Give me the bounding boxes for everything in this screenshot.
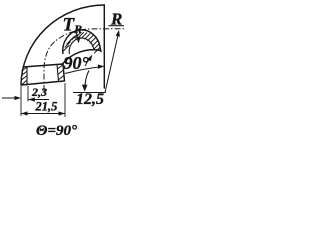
section hump inner offset arc <box>69 38 94 53</box>
dim 21,5 left arrowhead <box>21 111 28 115</box>
extension line right <box>64 83 66 117</box>
section hump hatch <box>64 32 100 53</box>
svg-text:12,5: 12,5 <box>76 91 104 108</box>
angle arc arrowhead up-right <box>87 55 92 62</box>
dim 2,3 right shaft <box>28 99 49 101</box>
bottom plane extension line <box>73 92 106 94</box>
T_R leader <box>76 31 79 39</box>
outer arc <box>21 5 104 85</box>
dim 2,3 left arrowhead <box>15 96 22 100</box>
down arrowhead at bottom plane <box>82 85 88 92</box>
90 degree leader line to right face <box>65 67 101 74</box>
section hump right edge <box>99 48 102 52</box>
dim 21,5 line <box>21 113 65 115</box>
svg-text:2,3: 2,3 <box>31 85 47 99</box>
right face leader arrowhead <box>98 65 105 69</box>
T_R leader arrowhead <box>76 37 80 44</box>
inner arc <box>62 50 101 65</box>
right end face line <box>103 5 105 88</box>
bottom end band bottom edge <box>22 81 65 85</box>
section hump outer arc <box>63 30 100 54</box>
bottom band left wall inner line <box>26 67 28 85</box>
bottom band left wall hatch <box>22 68 27 85</box>
svg-text:21,5: 21,5 <box>35 100 58 114</box>
dim 2,3 left arrow shaft <box>2 97 19 99</box>
bottom band right wall hatch <box>57 65 64 80</box>
angle arc down branch <box>85 71 89 87</box>
svg-text:Θ=90°: Θ=90° <box>36 123 77 139</box>
R dimension line <box>105 33 118 92</box>
R arrowhead <box>116 30 120 37</box>
angle arc arrow up-right <box>85 57 91 66</box>
extension line left inner <box>27 86 29 102</box>
dim 2,3 right arrowhead <box>28 97 35 101</box>
extension line left outer <box>20 86 22 116</box>
R underline <box>109 25 125 27</box>
bottom end band top edge <box>23 64 63 67</box>
bottom band right wall outer edge <box>63 64 65 81</box>
bottom band right wall inner line <box>57 65 59 82</box>
svg-text:90°: 90° <box>64 53 90 73</box>
dim 21,5 right arrowhead <box>59 111 66 115</box>
centerline arc <box>44 29 124 91</box>
section hump white mask over centerline <box>62 30 101 65</box>
